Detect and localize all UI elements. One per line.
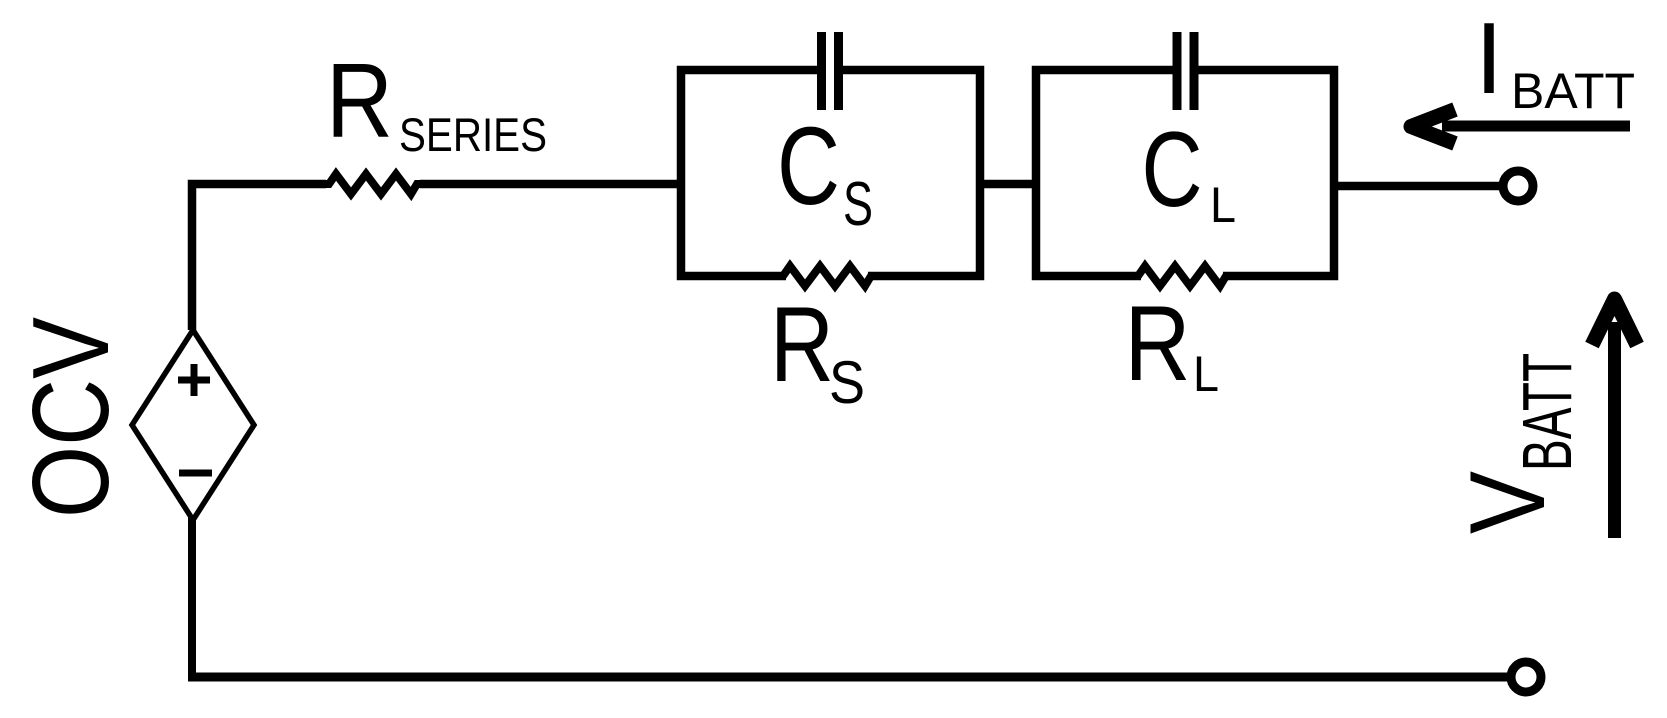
label V_BATT (rotated) [1447,353,1586,534]
RC block 2 box (C_L parallel R_L), left part [1036,70,1179,276]
label R_S [770,284,865,416]
resistor R_SERIES zigzag [322,174,424,194]
arrow V_BATT (pointing up) [1592,299,1637,538]
label C_L [1142,109,1237,233]
svg-text:S: S [843,170,873,239]
positive terminal (open circle) [1503,171,1533,201]
svg-text:C: C [1142,109,1203,229]
svg-text:R: R [326,42,393,160]
label C_S [777,105,873,239]
svg-text:R: R [770,284,834,404]
RC block 1 box (C_S parallel R_S), right part [839,70,980,276]
capacitor C_S plates [822,32,839,110]
wire: top rail from R_SERIES to Cs block [420,180,681,189]
dependent voltage source OCV (diamond) [132,330,254,520]
RC block 1 box (C_S parallel R_S), left part [681,70,822,276]
wire: top rail from OCV node up-left corner to R_SERIES [192,184,326,330]
svg-text:R: R [1125,283,1191,403]
wire: block 2 to positive terminal [1334,182,1500,191]
resistor R_S zigzag [779,266,875,286]
resistor R_L zigzag [1134,266,1230,286]
svg-text:V: V [1447,471,1567,534]
svg-text:I: I [1475,3,1503,115]
label R_L [1125,283,1220,403]
+ polarity mark [178,364,210,396]
wire: left vertical from OCV source down to bottom rail [188,516,196,677]
wire: between block 1 and block 2 [980,180,1036,189]
- polarity mark [179,470,212,477]
label R_SERIES [326,42,547,161]
wire: bottom rail to negative terminal [188,673,1508,682]
capacitor C_L plates [1177,32,1194,110]
svg-text:SERIES: SERIES [399,108,547,161]
svg-text:OCV: OCV [10,317,132,518]
svg-text:C: C [777,105,840,228]
negative terminal (open circle) [1511,662,1541,692]
svg-text:BATT: BATT [1508,353,1586,471]
svg-text:S: S [829,349,865,416]
svg-text:BATT: BATT [1511,63,1635,119]
svg-text:L: L [1210,177,1236,233]
svg-text:L: L [1193,346,1219,402]
arrow I_BATT (pointing left) [1411,110,1630,144]
label I_BATT [1475,3,1635,119]
RC block 2 box (C_L parallel R_L), right part [1196,70,1334,276]
